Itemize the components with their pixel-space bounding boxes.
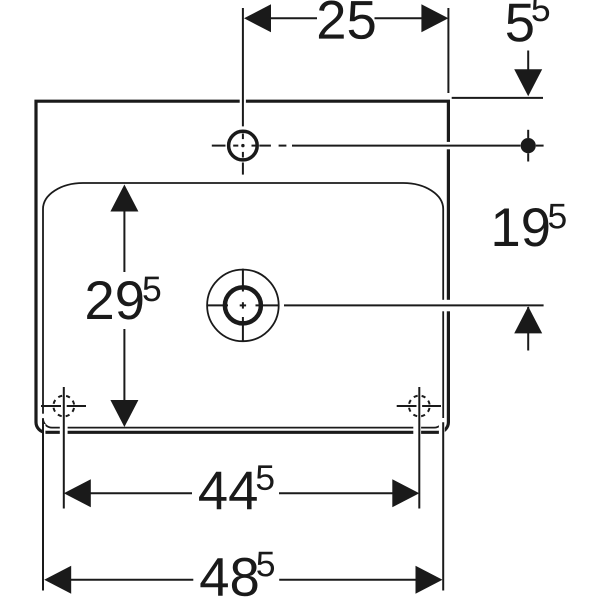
dimension 19-5: arrow tail: [527, 307, 529, 351]
dimension 25: right arrowhead: [421, 4, 448, 32]
dimension 5-5: superscript "5": [532, 0, 549, 21]
tap hole circle: [229, 131, 258, 160]
left mounting hole dashed circle: [53, 396, 74, 417]
dimension 25: value label "25": [319, 1, 375, 40]
dimension 48-5: dimension line segments: [71, 579, 416, 581]
drain inner circle (waste hole): [225, 287, 261, 323]
drain outer circle: [207, 270, 279, 342]
outer ceramic rim outline: [36, 101, 448, 432]
dimension 5-5: down arrowhead: [514, 69, 542, 96]
dimension 44-5: right arrowhead: [392, 479, 419, 507]
inner basin bowl outline: [43, 183, 443, 428]
dimension 25: dimension line segments: [271, 17, 422, 19]
dimension 19-5: superscript "5": [549, 204, 566, 229]
dimension 25: right extension line above top-right corner: [447, 8, 449, 93]
dimension 29-5: down arrowhead at bowl bottom edge: [110, 400, 138, 427]
dimension 5-5: arrow tail: [527, 51, 529, 73]
dimension 48-5: right arrowhead: [416, 566, 443, 594]
white gaps in outlines where extension and center lines cross: [42, 98, 452, 437]
tap hole horizontal centerline (dash-dot, runs to reference dot): [212, 145, 521, 147]
dimension 48-5: value label "48": [200, 558, 257, 597]
dimension 48-5: right extension line from bowl right edge: [442, 422, 444, 590]
drain vertical centerline: [242, 269, 244, 342]
dimension 19-5: up arrowhead at drain centerline: [514, 306, 542, 333]
left mounting hole vertical centerline / extension to dimension 44-5: [63, 387, 65, 509]
dimension 44-5: superscript "5": [257, 465, 274, 490]
tap hole vertical centerline (also left extension of dimension 25): [242, 8, 244, 175]
reference dot on tap hole centerline: [521, 138, 536, 153]
reference dot tick marks: [528, 130, 543, 162]
dimension 5-5: value label "5": [507, 4, 533, 42]
dimension 29-5: superscript "5": [143, 277, 160, 302]
drain center cross: [240, 302, 246, 308]
right mounting hole dashed circle: [409, 396, 430, 417]
dimension 48-5: left arrowhead: [44, 566, 71, 594]
dimension 44-5: left arrowhead: [64, 479, 91, 507]
dimension 44-5: dimension line segments: [91, 492, 393, 494]
right mounting hole vertical centerline / extension to dimension 44-5: [418, 387, 420, 509]
dimension 29-5: value label "29": [87, 281, 142, 320]
left mounting hole horizontal crosshair: [41, 405, 86, 407]
dimension 48-5: left extension line from bowl left edge: [42, 418, 44, 590]
drain horizontal centerline (runs right to 19-5 arrow line): [207, 304, 544, 306]
dimension 29-5: dimension line segments: [123, 211, 125, 400]
tap hole center dot: [241, 144, 244, 147]
right mounting hole horizontal crosshair: [397, 405, 441, 407]
dimension 48-5: superscript "5": [257, 552, 274, 577]
dimension 19-5: value label "19": [495, 208, 549, 247]
dimension 5-5: reference line at rim top edge level: [452, 97, 543, 99]
dimension 25: left arrowhead: [244, 4, 271, 32]
dimension 29-5: up arrowhead at bowl top edge: [110, 185, 138, 212]
dimension 44-5: value label "44": [199, 472, 257, 510]
